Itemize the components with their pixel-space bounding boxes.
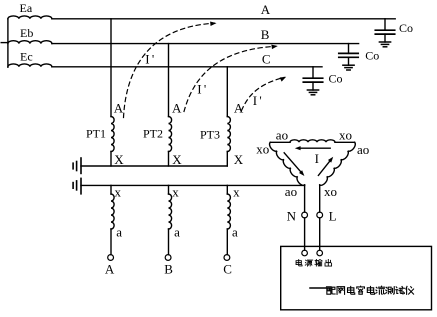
- svg-text:ao: ao: [285, 184, 297, 199]
- wire: L lead into tester box: [319, 218, 321, 250]
- svg-text:Ec: Ec: [20, 49, 33, 63]
- source coil Ec: [8, 64, 52, 67]
- terminal N (circle): [302, 212, 308, 218]
- PT2 primary winding: [169, 117, 172, 152]
- box terminal (N input circle): [302, 250, 308, 256]
- wire: PT1 primary to X bus: [110, 152, 112, 167]
- box terminal (L input circle): [317, 250, 323, 256]
- svg-text:a: a: [232, 224, 238, 239]
- svg-text:B: B: [261, 27, 270, 42]
- wire: phase line A: [52, 18, 395, 20]
- dashed arc: capacitive current I' from PT2 to phase B: [184, 46, 276, 111]
- open-delta winding: top side: [270, 141, 290, 143]
- ground (phase A capacitor): [379, 41, 390, 43]
- open-delta winding: right side: [320, 142, 356, 185]
- wire: drop from phase to PT2 primary: [168, 44, 170, 117]
- wire: X bus (primary star point): [81, 165, 227, 167]
- svg-text:X: X: [234, 152, 244, 167]
- text 电源输出 (power output): [296, 259, 332, 266]
- svg-text:A: A: [172, 100, 182, 115]
- wire: PT2 secondary lead: [168, 229, 170, 255]
- svg-text:Eb: Eb: [20, 26, 33, 40]
- svg-text:I: I: [315, 151, 319, 166]
- capacitor Co (phase C): [312, 67, 314, 78]
- svg-text:x: x: [233, 185, 240, 200]
- wire: PT3 secondary lead: [226, 229, 228, 255]
- wire: right delta leg to L: [319, 185, 321, 212]
- svg-text:xo: xo: [339, 128, 352, 143]
- wire: left source rail: [7, 19, 9, 67]
- PT3 secondary winding: [227, 194, 230, 229]
- ground (phase B capacitor): [343, 64, 354, 66]
- arrow: current I up-right (right inside delta): [318, 159, 331, 176]
- capacitor Co (phase A): [384, 19, 386, 30]
- svg-text:I': I': [145, 52, 156, 67]
- svg-text:a: a: [174, 224, 180, 239]
- svg-text:A: A: [105, 262, 115, 277]
- source coil Eb: [8, 41, 52, 44]
- svg-text:C: C: [262, 52, 271, 67]
- svg-text:B: B: [164, 262, 173, 277]
- svg-text:N: N: [287, 209, 297, 224]
- source coil Ea: [8, 16, 52, 19]
- PT1 secondary winding: [111, 194, 114, 229]
- wire: drop from phase to PT3 primary: [226, 67, 228, 117]
- wire: PT1 secondary lead: [110, 229, 112, 255]
- wire: x bus (secondary): [81, 184, 305, 186]
- ground (phase C capacitor): [307, 89, 318, 91]
- wire: PT3 primary to X bus: [226, 152, 228, 167]
- svg-text:PT1: PT1: [86, 126, 106, 140]
- open-delta winding: left side: [270, 142, 305, 185]
- svg-text:ao: ao: [276, 128, 288, 143]
- svg-text:PT2: PT2: [143, 126, 163, 140]
- svg-text:L: L: [329, 209, 337, 224]
- svg-text:Co: Co: [365, 49, 379, 63]
- svg-text:Ea: Ea: [20, 1, 33, 15]
- terminal C (circle): [224, 255, 230, 261]
- wire: PT2 primary to X bus: [168, 152, 170, 167]
- terminal B (circle): [165, 255, 171, 261]
- svg-text:Co: Co: [399, 21, 413, 35]
- terminal L (circle): [317, 212, 323, 218]
- svg-text:xo: xo: [256, 142, 269, 157]
- svg-text:PT3: PT3: [200, 127, 220, 141]
- svg-text:Co: Co: [329, 72, 343, 86]
- svg-text:X: X: [114, 152, 124, 167]
- svg-text:X: X: [172, 152, 182, 167]
- svg-text:xo: xo: [324, 184, 337, 199]
- tester box outline: [281, 246, 432, 309]
- ground (x bus): [80, 178, 82, 195]
- terminal A (circle): [108, 255, 114, 261]
- text 配网电容电流测试仪 (distribution network capacitive current tester): [326, 286, 413, 294]
- svg-text:ao: ao: [357, 142, 369, 157]
- svg-text:A: A: [261, 2, 271, 17]
- wire: PT2 secondary from x bus: [168, 185, 170, 194]
- wire: phase line B: [52, 43, 359, 45]
- arrow: current I down-right (left inside delta): [284, 153, 302, 174]
- svg-text:x: x: [115, 185, 122, 200]
- capacitor Co (phase B): [348, 44, 350, 54]
- PT3 primary winding: [227, 117, 230, 152]
- svg-text:C: C: [223, 262, 232, 277]
- wire: phase line C: [52, 66, 322, 68]
- PT1 primary winding: [111, 117, 114, 152]
- svg-text:I': I': [253, 93, 264, 108]
- wire: drop from phase to PT1 primary: [110, 19, 112, 117]
- arrow: current I pointing left (top inside delta): [299, 147, 330, 149]
- wire: N lead into tester box: [304, 218, 306, 250]
- PT2 secondary winding: [169, 194, 172, 229]
- wire: neutral stub at left edge: [1, 42, 8, 44]
- wire: PT3 secondary from x bus: [226, 185, 228, 194]
- wire: PT1 secondary from x bus: [110, 185, 112, 194]
- svg-text:x: x: [172, 185, 179, 200]
- leader line to tester name: [310, 287, 326, 289]
- ground (X bus): [80, 157, 82, 174]
- dashed arc: capacitive current I' from PT3 to phase C: [242, 77, 285, 110]
- dashed arc: capacitive current I' from PT1 to phase A: [124, 23, 215, 117]
- svg-text:A: A: [114, 100, 124, 115]
- svg-text:I': I': [197, 82, 208, 97]
- svg-text:a: a: [116, 224, 122, 239]
- wire: left delta leg to N: [304, 185, 306, 212]
